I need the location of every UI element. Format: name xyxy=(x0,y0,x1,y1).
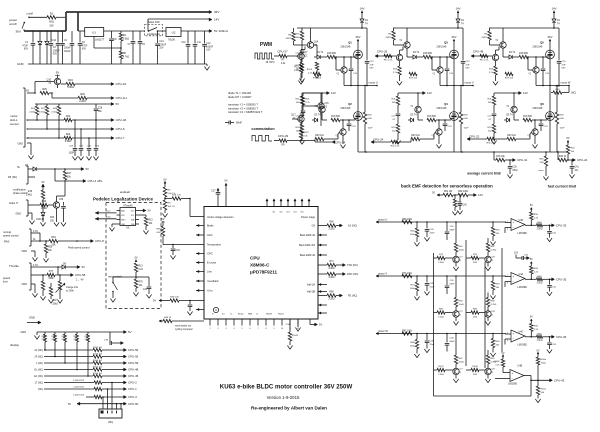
svg-text:2UF: 2UF xyxy=(562,64,567,66)
CPU left pin E-cruise xyxy=(196,262,204,264)
shunt resistor R45 xyxy=(545,152,547,156)
svg-text:(NC): (NC) xyxy=(108,421,113,424)
svg-text:GND: GND xyxy=(29,316,35,320)
svg-text:R62 100k: R62 100k xyxy=(458,191,469,193)
reed switch out resistor xyxy=(159,320,161,322)
svg-text:R46 0.8k: R46 0.8k xyxy=(170,296,180,298)
resistor R15 V xyxy=(409,72,417,75)
resistor R62 100k xyxy=(458,193,468,196)
svg-text:20nF: 20nF xyxy=(430,286,436,288)
diode D2 xyxy=(39,31,41,41)
36V output arrow xyxy=(209,11,212,14)
capacitor C12 100uF 16V xyxy=(204,31,206,44)
pullup resistor V 2.2k xyxy=(530,274,532,279)
svg-text:5V: 5V xyxy=(163,178,166,182)
svg-text:motor W: motor W xyxy=(561,80,571,84)
left bias column low xyxy=(493,93,495,96)
svg-text:μPD78F9211: μPD78F9211 xyxy=(250,270,278,275)
svg-text:25V: 25V xyxy=(159,48,164,50)
drain wire from motor node xyxy=(549,86,551,153)
svg-text:220k: 220k xyxy=(42,339,46,341)
capacitor C30 68nF xyxy=(509,160,511,166)
source node wire motor V xyxy=(440,85,473,87)
svg-text:68nF: 68nF xyxy=(450,341,456,343)
svg-text:5V: 5V xyxy=(148,209,151,213)
net 14V ref xyxy=(474,194,477,197)
svg-text:CPU-24: CPU-24 xyxy=(577,158,588,162)
comparator U4D LM339D xyxy=(511,219,525,231)
svg-text:back EMF detection for sensorl: back EMF detection for sensorless operat… xyxy=(401,184,493,189)
CPU right pin Back EMF-3rd xyxy=(318,244,327,246)
svg-text:A2 (NC): A2 (NC) xyxy=(348,225,357,228)
sense resistor W xyxy=(556,86,558,113)
svg-text:R54: R54 xyxy=(51,236,56,239)
resistor R63 33k W xyxy=(492,334,494,339)
wire xyxy=(51,93,53,98)
svg-text:C27: C27 xyxy=(211,191,216,193)
resistor R56 2.2k xyxy=(172,197,181,200)
svg-text:D5 (NC): D5 (NC) xyxy=(8,176,17,179)
resistor R64 47k xyxy=(454,195,456,199)
wire to comparator U xyxy=(417,221,506,223)
resistor R48 female xyxy=(41,190,44,199)
svg-text:2SK3148: 2SK3148 xyxy=(341,107,352,110)
resistor R12 10k xyxy=(139,214,146,216)
capacitor C13 bootstrap V xyxy=(462,28,464,61)
svg-text:RH3a: RH3a xyxy=(541,359,547,361)
left bias column low xyxy=(397,93,399,96)
5V arrow U5 xyxy=(139,210,145,212)
svg-text:10nF: 10nF xyxy=(464,128,470,130)
svg-text:2.4kΩ R114: 2.4kΩ R114 xyxy=(73,395,85,397)
svg-text:RXD (NC): RXD (NC) xyxy=(347,273,358,276)
svg-text:LM339D: LM339D xyxy=(518,343,528,346)
CPU right pin R66 A2 xyxy=(318,225,327,227)
resistor R88 100k to gnd xyxy=(416,334,418,340)
svg-text:0R22: 0R22 xyxy=(386,37,392,39)
svg-text:Q3: Q3 xyxy=(444,40,448,44)
svg-text:LM339D: LM339D xyxy=(518,232,528,235)
svg-text:0R22: 0R22 xyxy=(286,38,292,40)
output capacitor W xyxy=(549,337,551,342)
diode D5 low V xyxy=(411,118,414,122)
svg-text:Version 1-9-2015: Version 1-9-2015 xyxy=(267,395,300,400)
svg-text:H: H xyxy=(215,308,217,312)
svg-text:R15 1k2: R15 1k2 xyxy=(409,78,418,80)
capacitor C17 commutation xyxy=(302,108,304,110)
svg-text:14V: 14V xyxy=(478,193,483,197)
svg-text:U4C: U4C xyxy=(519,330,524,333)
diode DU bootstrap xyxy=(360,19,364,22)
comparator U4B LM339D xyxy=(510,370,524,382)
svg-text:cycling computer: cycling computer xyxy=(175,328,193,331)
14V output arrow xyxy=(209,18,212,21)
svg-text:CPU: CPU xyxy=(250,256,260,261)
svg-text:5V: 5V xyxy=(566,136,569,140)
capacitor C40 xyxy=(148,277,150,286)
svg-text:6: 6 xyxy=(507,229,508,231)
svg-text:5V: 5V xyxy=(128,330,132,334)
svg-text:100UF: 100UF xyxy=(206,46,213,48)
resistor R24 0R4 NC phase W xyxy=(568,86,570,93)
net arrow CPU-16 xyxy=(111,83,114,86)
svg-text:C14: C14 xyxy=(159,41,164,43)
svg-text:220k: 220k xyxy=(52,339,56,341)
svg-text:63V: 63V xyxy=(370,68,374,70)
svg-text:PB0: PB0 xyxy=(131,224,134,226)
phase U low 14V rail xyxy=(302,92,328,94)
svg-text:CPU-58: CPU-58 xyxy=(75,273,86,277)
transistor Y1 low W xyxy=(532,129,538,135)
wire commutation rail xyxy=(302,92,321,94)
capacitor C24 xyxy=(80,129,82,148)
svg-text:CPU-45: CPU-45 xyxy=(128,374,139,378)
svg-text:motor U: motor U xyxy=(378,217,387,221)
net CPU-33 xyxy=(552,224,555,227)
resistor R15 W xyxy=(505,72,513,75)
transistor Q3 xyxy=(53,202,59,208)
svg-text:transistor Y2 = SS8550 T: transistor Y2 = SS8550 T xyxy=(228,106,258,110)
resistor R gate low 680 W xyxy=(523,118,532,121)
transistor Y1 commutation xyxy=(298,116,304,122)
transistor Q7 xyxy=(298,53,304,59)
resistor R28 pullup xyxy=(58,104,60,106)
svg-text:fast current limit: fast current limit xyxy=(548,185,577,189)
resistor Rin V 2.2k xyxy=(384,54,392,57)
clamp transistor QR107 xyxy=(453,368,459,374)
connector J2 xyxy=(99,409,122,418)
svg-text:47UF: 47UF xyxy=(22,45,28,47)
svg-text:on/off: on/off xyxy=(9,22,17,26)
svg-text:GND: GND xyxy=(17,62,25,66)
svg-text:R-545: R-545 xyxy=(292,335,299,337)
diode DV bootstrap xyxy=(456,19,460,22)
fast current limit resistor R44h 2k xyxy=(557,152,559,160)
wire H1 to base xyxy=(34,82,36,94)
ground xyxy=(206,64,208,66)
resistor R13p 2.2k xyxy=(300,59,302,64)
clamp collector resistor R40 xyxy=(487,364,489,368)
transistor Y2 low U xyxy=(319,106,325,112)
resistor R gate 680 U xyxy=(327,55,336,58)
svg-text:Re-engineered by Albert van Da: Re-engineered by Albert van Dalen xyxy=(251,406,327,411)
wire Y1 base stub xyxy=(292,118,298,120)
svg-text:14V: 14V xyxy=(456,7,461,11)
CPU top pins power stage xyxy=(266,200,268,207)
pullup resistor W 2.2k xyxy=(530,332,532,337)
low side common bus xyxy=(358,151,568,153)
diode DW bootstrap xyxy=(552,19,556,22)
svg-text:14V: 14V xyxy=(214,18,219,22)
capacitor C19 low U xyxy=(348,120,350,123)
svg-text:2SK3148: 2SK3148 xyxy=(437,46,448,49)
transistor Y1 high U xyxy=(341,67,347,73)
series capacitor 68nF U xyxy=(446,222,448,231)
feedback wire to grid xyxy=(530,380,532,396)
CPU left pin Temperature xyxy=(196,244,204,246)
pin 4.3V wire xyxy=(31,232,40,234)
back EMF input motor U xyxy=(376,221,378,223)
clamp resistor R72 xyxy=(434,257,438,259)
resistor R43 22k xyxy=(40,203,48,206)
svg-text:4.7kΩ: 4.7kΩ xyxy=(491,249,497,251)
capacitor C9 xyxy=(139,31,141,41)
resistor Rin2 low W xyxy=(487,137,495,140)
IC U5 ATtiny45 xyxy=(120,208,136,226)
resistor R22 xyxy=(64,118,72,121)
svg-text:R19 680: R19 680 xyxy=(331,116,340,118)
capacitor C19 low V xyxy=(444,120,446,123)
resistor R89 220k xyxy=(54,332,56,334)
wire to comparator V xyxy=(417,275,506,277)
wire xyxy=(181,30,209,32)
svg-text:2.2kΩ: 2.2kΩ xyxy=(39,111,45,113)
transistor Y1 high W xyxy=(533,67,539,73)
svg-text:2F (NC): 2F (NC) xyxy=(35,356,44,359)
svg-text:Back EMF-3d: Back EMF-3d xyxy=(300,234,316,237)
svg-text:Brake: Brake xyxy=(238,313,244,316)
svg-text:A2/C: A2/C xyxy=(207,234,213,237)
svg-text:Temperature: Temperature xyxy=(207,244,222,247)
clamp transistor QR85 xyxy=(453,311,459,317)
svg-text:6: 6 xyxy=(507,283,508,285)
svg-text:R44: R44 xyxy=(50,217,55,219)
modification box Pelles 16D xyxy=(145,25,163,36)
capacitor C39 xyxy=(109,332,111,343)
svg-text:2.2kΩ: 2.2kΩ xyxy=(29,111,35,113)
svg-text:R56 2.2k: R56 2.2k xyxy=(172,194,182,196)
svg-text:CP/C: CP/C xyxy=(207,253,213,256)
svg-text:GND: GND xyxy=(20,331,26,334)
transistor Y2 low W xyxy=(511,106,517,112)
svg-text:7: 7 xyxy=(507,333,508,335)
U4B minus input wire xyxy=(495,378,510,380)
output capacitor U xyxy=(549,225,551,230)
svg-text:5V 100mA: 5V 100mA xyxy=(214,29,228,33)
svg-text:1 ... 4V: 1 ... 4V xyxy=(76,279,84,282)
svg-text:5V: 5V xyxy=(530,204,533,207)
series capacitor 68nF V xyxy=(446,276,448,285)
regulator U2 78L06 xyxy=(166,28,181,37)
wire xyxy=(57,85,59,88)
svg-text:motor W: motor W xyxy=(378,329,388,333)
svg-text:2kΩ: 2kΩ xyxy=(473,317,477,319)
net CPU-36 xyxy=(552,335,555,338)
svg-text:C41: C41 xyxy=(575,167,580,169)
svg-text:Back EMF-3rd: Back EMF-3rd xyxy=(299,244,316,247)
svg-text:U: U xyxy=(26,119,28,122)
svg-text:(NC): (NC) xyxy=(571,92,576,95)
clamp collector resistor R80 xyxy=(487,307,489,311)
clamp resistor R73 xyxy=(466,257,471,259)
CPU U3 uPD78F9211 xyxy=(204,207,318,320)
svg-text:CPU-36: CPU-36 xyxy=(556,335,567,339)
resistor R110 56k xyxy=(537,380,539,386)
clamp resistor R107 xyxy=(434,369,438,371)
svg-text:5V: 5V xyxy=(161,217,164,221)
svg-text:Power stage: Power stage xyxy=(301,216,316,219)
svg-text:CPU-55: CPU-55 xyxy=(128,355,139,359)
svg-text:5V: 5V xyxy=(432,191,435,194)
svg-text:D4 T4: D4 T4 xyxy=(509,52,516,54)
svg-text:1k6 1%: 1k6 1% xyxy=(168,206,175,208)
capacitor C10 xyxy=(187,31,189,44)
svg-text:transistor C1 = MMBT2222 T: transistor C1 = MMBT2222 T xyxy=(228,110,263,114)
svg-text:Hall 3A: Hall 3A xyxy=(307,284,315,287)
svg-text:2.2kΩ: 2.2kΩ xyxy=(328,229,334,231)
pin brake wire xyxy=(28,204,40,206)
clamp resistor R86 xyxy=(466,312,471,314)
svg-text:2.2kΩ: 2.2kΩ xyxy=(79,100,86,103)
CPU 5V bottom right xyxy=(309,319,311,325)
reference divider from 14V xyxy=(437,194,439,196)
transistor Y1 low U xyxy=(340,129,346,135)
svg-text:I-feedback: I-feedback xyxy=(207,280,219,283)
svg-text:normal: normal xyxy=(3,230,11,234)
connector brake xyxy=(27,166,29,184)
net CPU-43 xyxy=(550,379,553,382)
svg-text:63V: 63V xyxy=(466,68,470,70)
svg-text:R108: R108 xyxy=(494,361,500,363)
svg-text:5V: 5V xyxy=(319,323,322,327)
svg-text:C16: C16 xyxy=(324,103,329,105)
svg-text:CPU-8: CPU-8 xyxy=(95,239,104,243)
wire adj divider xyxy=(94,47,121,49)
svg-text:3.3kΩ: 3.3kΩ xyxy=(65,140,72,143)
svg-text:2kΩ: 2kΩ xyxy=(473,374,477,376)
svg-text:R59 100k: R59 100k xyxy=(402,219,413,221)
grid wire vertical 2 xyxy=(465,240,467,366)
svg-text:CPU-41: CPU-41 xyxy=(517,158,528,162)
clamp collector resistor R62 xyxy=(487,252,489,256)
svg-text:R43: R43 xyxy=(42,200,47,203)
CPU left pin 300.5 xyxy=(196,300,204,302)
svg-text:2.2kΩ: 2.2kΩ xyxy=(328,268,334,270)
diode D5 low U xyxy=(315,118,318,122)
GND rail xyxy=(28,63,207,65)
resistor R20 xyxy=(78,96,87,99)
svg-text:CPU-3: CPU-3 xyxy=(128,395,137,399)
source node wire motor W xyxy=(536,85,569,87)
resistor R154 xyxy=(315,62,318,70)
svg-text:R154: R154 xyxy=(307,69,313,71)
wire Q11 collector W xyxy=(495,50,497,54)
svg-text:on/off: on/off xyxy=(27,12,34,16)
svg-text:commutation: commutation xyxy=(251,127,275,131)
svg-text:20nF: 20nF xyxy=(430,232,436,234)
svg-text:5V: 5V xyxy=(86,167,90,171)
resistor R gate low 680 V xyxy=(427,118,436,121)
gate wire xyxy=(528,56,547,58)
CPU right pin Hall 3B xyxy=(318,291,327,293)
svg-text:2UF: 2UF xyxy=(370,64,375,66)
transistor Q3 collector xyxy=(56,196,58,202)
svg-text:C10: C10 xyxy=(181,42,186,44)
transistor Q14 xyxy=(307,42,313,48)
capacitor C47 xyxy=(189,301,191,305)
wire driver rail xyxy=(297,27,367,29)
pin PAS wire xyxy=(31,240,49,242)
svg-text:5V: 5V xyxy=(134,257,137,260)
resistor R15 U xyxy=(313,72,321,75)
svg-text:2.2kΩ: 2.2kΩ xyxy=(328,277,334,279)
resistor R40 low U xyxy=(315,137,324,140)
low gate wire xyxy=(514,119,519,121)
source node wire motor U xyxy=(344,85,377,87)
svg-text:C33: C33 xyxy=(176,250,181,252)
clamp transistor QR73 xyxy=(485,256,491,262)
svg-text:2.2kΩ: 2.2kΩ xyxy=(537,228,543,230)
MOSFET Q5 2SK3148 xyxy=(546,50,555,59)
transistor Y1 high V xyxy=(437,67,443,73)
gate wire xyxy=(336,56,355,58)
svg-text:E-cruise: E-cruise xyxy=(207,262,217,265)
svg-text:R12: R12 xyxy=(149,220,154,222)
svg-text:20nF: 20nF xyxy=(430,344,436,346)
svg-text:ATtiny45: ATtiny45 xyxy=(123,204,133,207)
svg-text:C28: C28 xyxy=(98,108,103,110)
svg-text:2.2kΩ: 2.2kΩ xyxy=(51,111,57,113)
diode D5 low W xyxy=(507,118,510,122)
5V stub xyxy=(42,185,44,189)
capacitor C 20nF U xyxy=(426,222,428,229)
capacitor C 20nF V xyxy=(426,276,428,283)
capacitor C14 220uF 25V xyxy=(157,36,159,43)
svg-text:4.7kΩ: 4.7kΩ xyxy=(491,304,497,306)
svg-text:2.2kΩ: 2.2kΩ xyxy=(438,374,444,376)
svg-text:CPU-48: CPU-48 xyxy=(473,50,484,54)
svg-text:Q1: Q1 xyxy=(348,40,352,44)
wire to CPU-4 xyxy=(54,169,56,181)
svg-text:5V: 5V xyxy=(153,300,156,303)
resistor R6 4.7k xyxy=(120,48,122,51)
sense resistor U xyxy=(364,86,366,113)
svg-text:5V: 5V xyxy=(502,352,505,355)
svg-text:R102 1k2: R102 1k2 xyxy=(93,347,103,349)
CPU right pin R68 FE xyxy=(318,295,327,297)
net arrow CPU-58 xyxy=(71,274,74,277)
svg-text:CPU-48: CPU-48 xyxy=(128,368,139,372)
svg-text:R19 680: R19 680 xyxy=(427,116,436,118)
diode D4 W xyxy=(506,56,509,58)
wire CPU link pulse xyxy=(95,218,117,220)
clamp transistor QR86 xyxy=(485,311,491,317)
svg-text:U4D: U4D xyxy=(519,219,524,222)
svg-text:X8M06-C: X8M06-C xyxy=(250,263,270,268)
MOSFET Q3 2SK3148 xyxy=(450,50,459,59)
wire xyxy=(56,16,66,18)
capacitor C33 xyxy=(172,245,174,249)
wire xyxy=(158,30,167,32)
svg-text:14V: 14V xyxy=(360,7,365,11)
svg-text:R25: R25 xyxy=(42,88,47,91)
svg-text:sensor: sensor xyxy=(10,122,19,126)
svg-text:CPU-16: CPU-16 xyxy=(116,82,127,86)
back EMF input motor W xyxy=(376,332,378,334)
5V pin CPU top xyxy=(225,184,227,207)
svg-text:CPU-4 off/L: CPU-4 off/L xyxy=(88,179,103,183)
svg-text:CPU-35: CPU-35 xyxy=(556,278,567,282)
PWM waveform xyxy=(255,53,274,59)
svg-text:R11Ω: R11Ω xyxy=(541,389,547,391)
CPU left pin CP/C xyxy=(196,253,204,255)
svg-text:5V: 5V xyxy=(116,102,120,106)
svg-text:Q2: Q2 xyxy=(348,102,352,106)
net arrow CPU-6 xyxy=(111,128,114,131)
resistor R82v xyxy=(42,275,44,281)
transistor Y1 low V xyxy=(436,129,442,135)
svg-text:D5 T4: D5 T4 xyxy=(410,115,417,117)
